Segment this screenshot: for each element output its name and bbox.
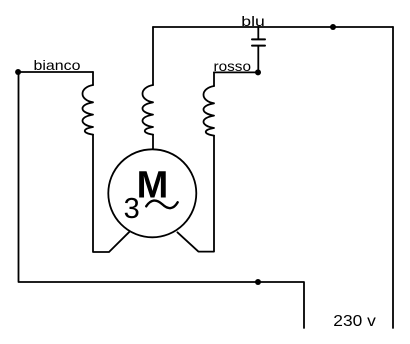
svg-text:3: 3	[124, 193, 140, 225]
capacitor C top lead	[257, 27, 259, 39]
svg-text:blu: blu	[241, 13, 264, 29]
wire left main (bianco to bottom)	[19, 72, 305, 328]
winding left (bianco phase coil)	[83, 85, 94, 135]
node junction dot on top blu wire	[330, 24, 336, 30]
node junction dot rosso	[255, 69, 261, 75]
wire left winding top stub	[92, 72, 94, 85]
winding right (rosso phase coil)	[204, 86, 215, 136]
wire left winding down to motor	[93, 135, 130, 252]
capacitor C bottom lead	[257, 46, 259, 72]
wire top horizontal (blu line)	[153, 26, 393, 28]
wire middle winding drop from top	[152, 27, 154, 85]
wire bianco horizontal	[18, 71, 93, 73]
motor M circle body	[108, 149, 196, 237]
wire rosso horizontal	[214, 71, 258, 73]
node junction dot on bottom wire	[255, 279, 261, 285]
motor AC sine symbol	[146, 201, 178, 209]
svg-text:bianco: bianco	[34, 57, 81, 73]
wire right vertical (supply side A)	[392, 27, 394, 328]
wire right winding down to motor	[177, 136, 214, 252]
winding middle (blu phase coil)	[143, 85, 154, 135]
wire right winding top stub	[213, 72, 215, 86]
node junction dot bianco	[15, 69, 21, 75]
wire middle winding to motor	[152, 135, 154, 150]
svg-text:rosso: rosso	[214, 58, 252, 74]
capacitor C plates	[252, 39, 265, 45]
svg-text:230 v: 230 v	[333, 313, 376, 330]
